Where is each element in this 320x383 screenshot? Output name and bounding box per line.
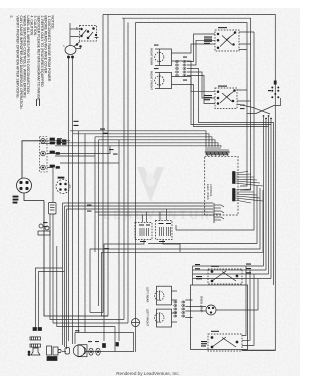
svg-text:CONTROL: CONTROL <box>209 184 213 197</box>
svg-text:5.: 5. <box>9 16 13 19</box>
svg-text:Rendered by LeadVenture, Inc.: Rendered by LeadVenture, Inc. <box>116 371 180 376</box>
svg-text:LEFT FRONT: LEFT FRONT <box>146 309 150 326</box>
svg-text:LEFT REAR: LEFT REAR <box>146 287 150 302</box>
svg-text:RIGHT FRONT: RIGHT FRONT <box>150 71 154 90</box>
svg-text:OVEN LAMP: OVEN LAMP <box>200 296 204 312</box>
svg-text:RIGHT REAR: RIGHT REAR <box>150 48 154 65</box>
svg-text:VERIFY PROPER OPERATION AFTER: VERIFY PROPER OPERATION AFTER SERVICING. <box>16 16 20 99</box>
